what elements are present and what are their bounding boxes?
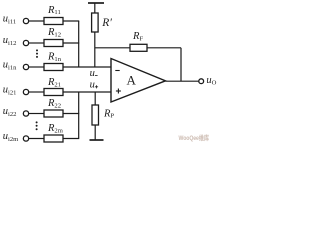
op-amp minus sign [115, 70, 119, 72]
wire row2 input [28, 42, 44, 44]
svg-text:RF: RF [132, 31, 143, 42]
terminal ui22 [23, 111, 28, 116]
op-amp A [111, 59, 166, 103]
wire R' down to u- line [94, 32, 96, 67]
resistor R22 [44, 110, 63, 117]
wire RF to feedback corner [147, 47, 181, 49]
resistor R1n [44, 64, 63, 71]
wire row5 input [28, 113, 44, 115]
resistor R11 [44, 18, 63, 25]
svg-text:ui22: ui22 [3, 106, 17, 118]
wire u+ line row4 to op-amp [63, 91, 111, 93]
wire RP from u+ line [94, 92, 96, 105]
resistor RP [92, 105, 99, 125]
terminal ui12 [23, 40, 28, 45]
wire feedback down [180, 48, 182, 81]
wire row3 input [28, 66, 44, 68]
dots group2 [36, 121, 38, 123]
svg-text:R11: R11 [47, 5, 61, 16]
terminal ui11 [23, 18, 28, 23]
resistor R' [92, 13, 99, 32]
wire u- line row3 to op-amp [63, 66, 111, 68]
svg-text:u: u [90, 68, 95, 79]
terminal ui1n [23, 64, 28, 69]
svg-text:R2m: R2m [47, 123, 64, 134]
svg-text:ui12: ui12 [3, 35, 17, 47]
terminal ui2m [23, 136, 28, 141]
wire bus group2 [78, 92, 80, 139]
terminal uo [199, 79, 204, 84]
svg-text:R′: R′ [101, 17, 112, 29]
wire row5 to bus [63, 113, 79, 115]
svg-text:R1n: R1n [47, 51, 62, 62]
svg-text:R22: R22 [47, 98, 61, 109]
wire ground to R' [94, 3, 96, 13]
svg-text:uO: uO [206, 75, 216, 87]
wire output [166, 80, 199, 82]
svg-text:RP: RP [103, 108, 114, 119]
resistor RF [130, 44, 147, 51]
wire row1 to bus [63, 20, 79, 22]
svg-text:R21: R21 [47, 77, 61, 88]
resistor R21 [44, 89, 63, 96]
ground top [88, 2, 104, 4]
svg-text:R12: R12 [47, 27, 61, 38]
wire row4 input [28, 91, 44, 93]
svg-text:ui2m: ui2m [3, 131, 19, 143]
wire row2 to bus [63, 42, 79, 44]
dots group1 [36, 49, 38, 51]
resistor R2m [44, 135, 63, 142]
terminal ui21 [23, 89, 28, 94]
wire bus group1 [78, 21, 80, 67]
wire row6 input [28, 138, 44, 140]
wire row6 to bus [63, 138, 79, 140]
wire RP to ground [94, 125, 96, 140]
wire row1 input [28, 20, 44, 22]
op-amp plus sign [116, 90, 121, 92]
svg-text:u: u [90, 80, 95, 91]
svg-text:A: A [127, 73, 137, 88]
svg-text:WooQee维库: WooQee维库 [179, 133, 210, 142]
svg-text:ui21: ui21 [3, 84, 17, 96]
svg-text:ui1n: ui1n [3, 59, 17, 71]
resistor R12 [44, 40, 63, 47]
wire tap to RF [95, 47, 130, 49]
svg-text:ui11: ui11 [3, 14, 16, 26]
ground bottom [90, 139, 104, 141]
